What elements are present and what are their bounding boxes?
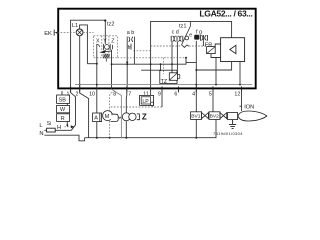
svg-text:A: A [94,116,98,122]
svg-text:a b: a b [127,30,135,36]
wire M dashed feeds [110,92,113,137]
wire bus to TZ [160,64,162,71]
wire lamp top to bus [80,25,88,64]
contact under X [97,44,100,50]
fuel valve BV1 [191,112,202,120]
svg-text:SB: SB [59,97,67,103]
wire amp to chassis [239,62,241,85]
node dots on bus [96,63,98,65]
svg-text:tz1: tz1 [179,23,186,29]
svg-text:R: R [61,116,65,122]
wire X contact lead [96,50,98,64]
TZ ignition relay [160,70,177,83]
switch H contact [71,125,75,131]
svg-text:tz2: tz2 [107,21,114,27]
dashed box X Y Z (ignition outputs) [94,36,118,58]
svg-text:X: X [96,38,100,44]
earth clamp [228,113,238,120]
neutral bus bottom [85,119,216,137]
ionisation probe line [241,89,243,111]
wire b leg [133,42,135,64]
svg-text:9: 9 [158,91,161,97]
burner electrode hatched [103,54,110,59]
svg-text:Y: Y [103,38,107,44]
svg-text:TZ: TZ [161,79,168,85]
wire d leg [176,42,178,73]
box A remote indication [93,113,102,122]
wire EK dashed line [54,32,93,34]
svg-text:BV1: BV1 [191,114,201,120]
svg-text:M: M [105,114,110,120]
wire W-R [66,113,68,114]
svg-text:LP: LP [142,99,149,105]
wire terminal 5 to BV2 [212,89,214,112]
ignition transformer Z [122,113,130,121]
wire terminal 7 to Z [125,89,128,112]
svg-text:L1: L1 [72,23,78,29]
wire terminal 2 down with jog [80,89,89,137]
wire SB-W [66,103,68,105]
wire terminal 9 stub [161,89,163,107]
wire fr dashed to box B [133,50,150,52]
wire stub left of TZ [141,69,160,71]
motor M fan [103,111,113,121]
svg-text:5: 5 [209,91,212,97]
spark arrow [104,50,112,53]
flame amplifier box U1 [221,38,245,62]
external: W thermostat box [57,105,70,112]
wire tz1 diagonal [181,27,190,46]
wire a leg [126,42,128,89]
svg-text:4: 4 [192,91,195,97]
wire terminal 1 jog to switch rail [71,89,76,124]
wire c leg [171,42,173,73]
svg-text:1: 1 [66,91,69,97]
internal wire lamp to X leg [87,63,96,65]
wire tz1 stub [189,21,191,26]
wire stub to SB top [61,91,63,95]
terminal ticks and numbers [71,86,242,92]
wire terminal 4 to BV1 [195,89,197,137]
wire terminal 11 to LP [150,92,152,95]
contact e [185,36,189,40]
svg-text:W: W [60,107,66,113]
LP air pressure switch [140,95,154,105]
svg-text:ION: ION [244,104,254,110]
svg-text:Z: Z [142,112,147,121]
inner box B top (right unit) [151,21,232,92]
main control box outline LGA [58,9,256,89]
fuse Si [47,128,56,132]
wire terminal 10 feed [96,64,98,87]
svg-text:12: 12 [234,91,240,97]
svg-text:LGA52... / 63...: LGA52... / 63... [199,9,252,19]
external: SB limiter box [57,95,70,103]
svg-text:c d: c d [172,29,179,35]
svg-text:EK: EK [44,31,52,37]
svg-text:7419d01/0304: 7419d01/0304 [213,131,243,136]
svg-text:10: 10 [89,91,95,97]
svg-text:N: N [39,131,43,137]
ignition transformer symbol under Y-Z [105,45,110,50]
svg-text:e: e [189,33,192,39]
inner box A (program unit left) [71,20,106,89]
wire LP dashed link [110,106,162,108]
wire Z column lead [111,50,113,90]
chassis thin line [75,84,252,86]
wire f leg [195,41,197,63]
svg-text:Si: Si [47,121,51,127]
node tz2 [104,20,106,22]
ground symbol [229,124,236,128]
dashed control line with interrupter [151,45,207,47]
wire A to neutral [96,122,98,138]
svg-text:7: 7 [128,91,131,97]
dashed ignition line [118,57,187,59]
internal bus wire [112,63,187,65]
wire g leg [202,41,204,46]
wire amp output [196,62,231,71]
external: R thermostat box [57,114,70,122]
svg-text:BV2: BV2 [210,114,220,120]
wire to terminal 4 [186,58,196,88]
wire lamp bottom to terminal 2 [79,36,81,88]
interrupter symbol [182,45,189,47]
svg-text:Z: Z [111,38,114,44]
wire terminal 8 straight down [112,89,122,137]
wire terminal 10 to A [96,86,98,113]
flame [238,111,267,121]
svg-text:f g: f g [196,29,202,35]
svg-text:6: 6 [174,91,177,97]
svg-text:L: L [39,123,43,129]
svg-text:2: 2 [76,91,79,97]
wire R down with arrow [66,121,68,125]
dashed tz link to TZ relay [163,58,165,74]
fuel valve BV2 [209,112,220,120]
